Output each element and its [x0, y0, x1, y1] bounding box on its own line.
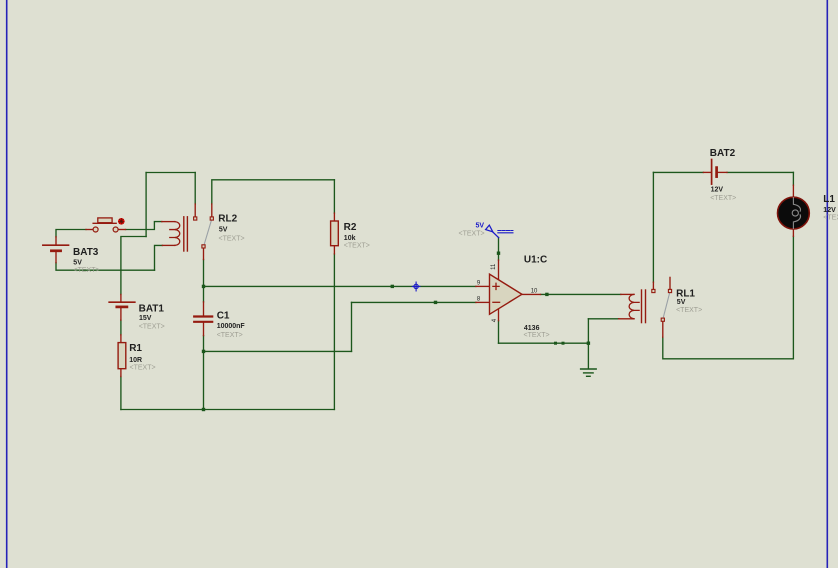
- svg-text:<TEXT>: <TEXT>: [524, 332, 550, 339]
- wire to op-amp pin8: [352, 301, 476, 303]
- power flag 5V arrow: [486, 225, 513, 238]
- op-amp minus sign: [493, 301, 500, 303]
- svg-text:11: 11: [491, 263, 497, 270]
- ground: [581, 369, 597, 376]
- wire lamp bottom loop: [663, 236, 794, 358]
- svg-text:U1:C: U1:C: [524, 254, 547, 265]
- svg-text:12V: 12V: [711, 187, 724, 194]
- wire ground vertical: [587, 319, 589, 369]
- svg-text:<TEXT>: <TEXT>: [676, 307, 702, 314]
- wire red stub op-amp pin8: [476, 301, 490, 303]
- relay RL2 pin squares: [194, 217, 214, 248]
- wire node A horizontal to op-amp pin9: [204, 285, 476, 287]
- svg-text:10k: 10k: [344, 235, 356, 242]
- svg-text:4: 4: [492, 318, 498, 322]
- wire red stub R2 bottom: [333, 246, 335, 254]
- wire step up: [351, 302, 353, 351]
- svg-text:<TEXT>: <TEXT>: [217, 332, 243, 339]
- wire red stub BAT3 top: [55, 237, 57, 245]
- wire red stub op-amp pin11: [498, 260, 500, 279]
- relay RL2 core bars: [184, 217, 188, 251]
- junction pin10 wire: [545, 293, 548, 296]
- svg-text:RL1: RL1: [676, 289, 695, 300]
- battery BAT2: [712, 160, 717, 185]
- capacitor C1: [194, 317, 212, 322]
- wire red stub BAT2 left: [703, 171, 711, 173]
- wire BAT2 left horizontal: [653, 171, 703, 173]
- svg-text:<TEXT>: <TEXT>: [823, 214, 838, 221]
- wire RL2 common down to C1: [203, 260, 205, 302]
- relay RL1 pin squares: [652, 289, 672, 321]
- wire red stub BAT1 top: [120, 295, 122, 302]
- wire BAT3+ to button: [56, 230, 86, 237]
- wire loop top horizontal: [146, 172, 195, 174]
- wire R2 top stub green: [333, 180, 335, 213]
- wire red stub RL1 pin NO: [652, 282, 654, 289]
- svg-text:10R: 10R: [129, 357, 142, 364]
- battery BAT1: [109, 302, 135, 307]
- op-amp U1:C triangle: [490, 274, 522, 314]
- wire red stub op-amp pin9: [476, 285, 490, 287]
- junction ground wire a: [554, 342, 557, 345]
- svg-text:C1: C1: [217, 310, 230, 321]
- junction ground node: [587, 342, 590, 345]
- push button: [93, 218, 118, 232]
- svg-text:<TEXT>: <TEXT>: [710, 195, 736, 202]
- svg-text:<TEXT>: <TEXT>: [219, 236, 245, 243]
- wire red stub RL2 pin1: [194, 204, 196, 217]
- junction pin8 wire: [434, 301, 437, 304]
- junction pin9 wire: [391, 285, 394, 288]
- wire red stub RL1 pin NC floating: [669, 277, 671, 289]
- wire red stub R1 top: [120, 335, 122, 343]
- wire ground node to RL1 coil: [588, 318, 618, 320]
- wire red stub C1 top: [203, 302, 205, 316]
- svg-text:10000nF: 10000nF: [217, 323, 246, 330]
- svg-text:5V: 5V: [677, 299, 686, 306]
- wire loop left vertical: [145, 173, 147, 237]
- relay RL2 switch arm: [204, 220, 211, 244]
- svg-text:R2: R2: [344, 222, 357, 233]
- wire red stub R1 bottom: [120, 369, 122, 377]
- wire pin4 down: [498, 321, 500, 344]
- svg-text:<TEXT>: <TEXT>: [344, 242, 370, 249]
- wire red stub op-amp pin10: [522, 293, 541, 295]
- wire RL2 coil bottom return: [155, 245, 163, 270]
- junction pin11 wire: [497, 252, 500, 255]
- wire R1 to bus: [120, 377, 122, 410]
- wire R2 bottom long vertical: [333, 254, 335, 410]
- wire BAT3- bottom: [56, 263, 155, 271]
- wire button to RL2 coil corner: [126, 222, 162, 230]
- svg-text:5V: 5V: [476, 223, 485, 230]
- svg-text:R1: R1: [129, 343, 142, 354]
- svg-text:BAT1: BAT1: [139, 303, 165, 314]
- wire red stub BAT1 bottom: [120, 308, 122, 320]
- wire op-amp out to RL1 coil: [541, 293, 621, 295]
- wire bottom bus: [121, 409, 335, 411]
- svg-text:8: 8: [477, 297, 481, 303]
- wire red stub RL1 coil bottom: [619, 318, 634, 320]
- svg-text:BAT3: BAT3: [73, 247, 99, 258]
- svg-text:<TEXT>: <TEXT>: [130, 365, 156, 372]
- wire red stub RL2 coil top: [162, 221, 175, 223]
- svg-text:<TEXT>: <TEXT>: [139, 324, 165, 331]
- svg-text:<TEXT>: <TEXT>: [74, 267, 100, 274]
- resistor R1: [118, 343, 126, 369]
- wire step to BAT1 column: [121, 237, 146, 295]
- wire RL2 pin2 up and right to R2: [212, 180, 335, 204]
- wire BAT2 loop left vertical: [652, 172, 654, 282]
- svg-text:L1: L1: [823, 194, 835, 205]
- wire 5V power to pin11: [498, 238, 500, 261]
- svg-text:RL2: RL2: [218, 213, 237, 224]
- svg-text:12V: 12V: [823, 207, 836, 214]
- relay RL1 coil: [629, 294, 639, 318]
- wire node B horizontal: [204, 350, 352, 352]
- svg-text:BAT2: BAT2: [710, 148, 736, 159]
- wire red stub RL2 coil bottom: [162, 244, 175, 246]
- svg-text:5V: 5V: [73, 260, 82, 267]
- svg-text:5V: 5V: [219, 226, 228, 233]
- wire to lamp top: [792, 172, 794, 185]
- wire red stub lamp top: [792, 185, 794, 197]
- lamp L1: [778, 197, 810, 229]
- op-amp plus sign: [493, 283, 499, 289]
- svg-text:<TEXT>: <TEXT>: [459, 231, 485, 238]
- battery BAT3: [43, 245, 69, 251]
- wire red stub button right: [118, 229, 125, 231]
- junction node C1 bottom: [202, 350, 205, 353]
- svg-text:10: 10: [531, 289, 538, 295]
- push button actuator dot: [118, 218, 125, 225]
- junction ground wire b: [562, 342, 565, 345]
- origin marker: [412, 282, 420, 291]
- wire red stub op-amp pin4: [498, 309, 500, 321]
- relay RL2 coil: [170, 222, 180, 246]
- wire red stub BAT3 bottom: [55, 252, 57, 263]
- wire down to RL2 pin1: [194, 173, 196, 205]
- wire red stub C1 bottom: [203, 323, 205, 336]
- wire red stub R2 top: [333, 213, 335, 221]
- resistor R2: [331, 221, 339, 246]
- wire red stub RL2 common: [203, 248, 205, 260]
- wire pin4 to ground node: [499, 342, 589, 344]
- wire red stub button left: [86, 229, 93, 231]
- relay RL1 core bars: [642, 290, 646, 323]
- wire red stub RL1 coil top: [621, 293, 634, 295]
- wire BAT2 right horizontal: [727, 171, 793, 173]
- svg-text:15V: 15V: [139, 315, 152, 322]
- wire red stub RL2 pin2: [211, 204, 213, 217]
- wire BAT1- to R1: [120, 320, 122, 335]
- wire red stub RL1 common: [662, 321, 664, 337]
- wire red stub lamp bottom: [792, 229, 794, 236]
- junction node C1 top: [202, 285, 205, 288]
- junction bottom bus: [202, 408, 205, 411]
- relay RL1 switch arm: [663, 293, 669, 318]
- wire red stub BAT2 right: [717, 171, 727, 173]
- wire C1 bottom to bus: [203, 336, 205, 410]
